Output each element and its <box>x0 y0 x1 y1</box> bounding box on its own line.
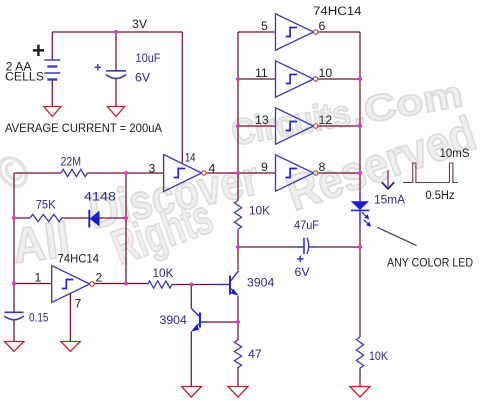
wire Q2 base row <box>208 321 238 323</box>
svg-text:AVERAGE CURRENT = 200uA: AVERAGE CURRENT = 200uA <box>5 121 163 135</box>
wire 75K diode row <box>14 217 126 219</box>
svg-text:2: 2 <box>96 271 103 285</box>
wire pin14 drop <box>181 32 183 164</box>
ground 0.15 <box>5 342 25 352</box>
svg-text:1: 1 <box>35 271 42 285</box>
svg-text:0.15: 0.15 <box>29 311 49 325</box>
transistor Q1 3904 <box>218 271 239 296</box>
svg-text:14: 14 <box>185 151 196 165</box>
inverter U1D pins 11,10 <box>276 61 318 97</box>
wire pin4 output <box>204 172 238 174</box>
resistor R5 47 <box>234 340 241 368</box>
node pin1 <box>12 282 16 286</box>
wire 10uF bottom to ground <box>115 79 117 107</box>
wire LED cathode down <box>359 228 361 338</box>
node rail row3 <box>358 124 362 128</box>
svg-text:6V: 6V <box>295 265 311 279</box>
svg-text:ANY COLOR LED: ANY COLOR LED <box>387 256 473 270</box>
wire battery bottom to ground <box>51 80 53 107</box>
svg-text:13: 13 <box>255 113 269 127</box>
svg-text:10: 10 <box>319 66 333 80</box>
node 75K right <box>124 216 128 220</box>
svg-text:22M: 22M <box>61 155 82 169</box>
capacitor C1 10uF <box>106 71 126 79</box>
node Q2 base <box>236 320 240 324</box>
watermark backdrop <box>0 73 480 275</box>
copyright ellipse <box>0 153 32 192</box>
svg-text:47: 47 <box>248 347 262 361</box>
inverter U1C pins 5,6 <box>276 14 318 50</box>
inverter U1B pins 3,4 <box>164 155 206 192</box>
wire 10uF top <box>115 32 117 71</box>
pointer line to LED <box>378 228 417 246</box>
inverter U1A pins 1,2 <box>52 266 95 303</box>
svg-text:12: 12 <box>319 113 333 127</box>
wire inverter output rows <box>318 32 360 173</box>
svg-text:3V: 3V <box>132 17 148 31</box>
wire pin1 input <box>14 283 52 285</box>
resistor R2 75K <box>30 214 62 221</box>
led light arrows <box>362 212 366 216</box>
svg-text:8: 8 <box>319 160 326 174</box>
svg-text:47uF: 47uF <box>294 218 319 232</box>
10uF plus <box>95 64 102 71</box>
node 47uF right <box>358 245 362 249</box>
node rail row2 <box>358 77 362 81</box>
svg-text:10K: 10K <box>249 204 271 218</box>
node Q1 base <box>189 283 193 287</box>
ground 10K led <box>350 387 370 398</box>
svg-text:7: 7 <box>75 297 82 311</box>
node 3V junction <box>114 30 118 34</box>
svg-text:3904: 3904 <box>160 313 188 327</box>
svg-text:6: 6 <box>319 19 326 33</box>
wire main column <box>237 32 239 340</box>
current arrow 15mA <box>382 170 394 189</box>
node row3 col <box>236 124 240 128</box>
node 75K left <box>12 216 16 220</box>
svg-text:4: 4 <box>209 162 216 176</box>
wire Q2 collector column <box>190 285 192 309</box>
resistor R3 10K vertical <box>234 201 241 230</box>
resistor R1 22M <box>61 169 88 176</box>
node rail row4 <box>358 171 362 175</box>
wire pin2 output to 10K <box>94 283 147 285</box>
wire right rail <box>359 32 361 192</box>
inverter U1F pins 9,8 <box>276 155 318 191</box>
svg-text:3: 3 <box>149 162 156 176</box>
capacitor C2 0.15 <box>4 312 23 319</box>
svg-text:74HC14: 74HC14 <box>58 251 100 265</box>
svg-text:5: 5 <box>261 19 268 33</box>
wire right feedback column <box>125 173 127 284</box>
svg-text:6V: 6V <box>135 70 151 84</box>
node 47uF left <box>236 245 240 249</box>
transistor Q2 3904 <box>191 309 208 332</box>
svg-text:74HC14: 74HC14 <box>313 4 362 18</box>
wire 0.15 cap to ground <box>13 320 15 342</box>
svg-text:0.5Hz: 0.5Hz <box>426 188 455 202</box>
svg-text:CELLS: CELLS <box>5 69 44 83</box>
diode D1 4148 <box>89 210 99 228</box>
wire 10K horizontal to Q1 base <box>172 284 218 286</box>
svg-text:9: 9 <box>261 160 268 174</box>
battery plus sign <box>33 45 44 56</box>
wire 10K bottom to ground <box>359 368 361 387</box>
wire Q2 emitter to ground <box>190 332 192 387</box>
svg-text:15mA: 15mA <box>374 193 406 207</box>
resistor R6 10K led <box>356 337 363 368</box>
ground Q2 emitter <box>182 387 202 398</box>
node pin2 <box>124 282 128 286</box>
ground battery <box>44 107 61 117</box>
wire 47uF row left <box>238 246 296 248</box>
inverter U1E pins 13,12 <box>276 108 318 144</box>
LED D2 <box>351 192 371 228</box>
resistor R4 10K horizontal <box>148 281 173 288</box>
svg-text:11: 11 <box>255 66 268 80</box>
wire pin7 to ground <box>69 293 71 342</box>
wire left feedback column <box>13 173 15 312</box>
wire inverter input rows <box>238 32 276 173</box>
node 22M right <box>124 171 128 175</box>
ground 10uF <box>107 107 124 117</box>
svg-text:10K: 10K <box>153 266 175 280</box>
node pin4 <box>236 171 240 175</box>
wire 47uF row right <box>317 246 360 248</box>
ground pin7 <box>61 342 81 352</box>
svg-text:10uF: 10uF <box>136 51 161 65</box>
capacitor C3 47uF <box>296 238 318 254</box>
ground symbols <box>5 107 371 398</box>
wire 3V rail <box>52 31 182 33</box>
wire battery top <box>51 32 53 60</box>
node row2 col <box>236 77 240 81</box>
svg-text:10mS: 10mS <box>440 146 470 160</box>
wire 22M row / pin3 input <box>14 172 164 174</box>
waveform pulses <box>403 163 458 183</box>
svg-text:10K: 10K <box>369 349 389 363</box>
ground 47 resistor <box>228 387 248 398</box>
svg-text:3904: 3904 <box>247 276 275 290</box>
47uF plus <box>297 256 303 262</box>
wire 47 resistor to ground <box>237 367 239 387</box>
svg-text:4148: 4148 <box>84 190 116 204</box>
battery B1 (2 AA cells) <box>44 60 60 80</box>
svg-text:75K: 75K <box>36 198 57 212</box>
